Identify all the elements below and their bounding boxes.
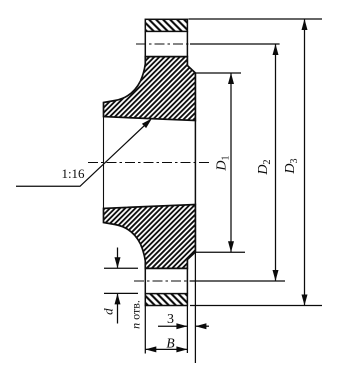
flange outer rim strip lower (hatched) bbox=[145, 294, 187, 306]
extension line below raised face (3 right) bbox=[194, 252, 196, 363]
svg-text:B: B bbox=[166, 335, 174, 350]
bore silhouette line at flange face bbox=[194, 121, 196, 205]
D2 arrow down bbox=[273, 270, 279, 281]
dimension 3 left arrow bbox=[158, 323, 187, 329]
D3 extension line lower bbox=[190, 305, 322, 307]
extension line below back face (B left) bbox=[144, 306, 146, 354]
D3 arrow down bbox=[302, 295, 308, 306]
d dimension arrow upper bbox=[115, 248, 121, 269]
bolt hole upper side walls bbox=[145, 31, 187, 56]
d extension line upper bbox=[104, 267, 138, 269]
extension line below front face (B right / 3 left) bbox=[186, 306, 188, 354]
bolt circle centerline lower bbox=[134, 280, 190, 282]
flange lower half main body (hatched) bbox=[104, 205, 196, 269]
D3 arrow up bbox=[302, 19, 308, 30]
D2 extension line upper bbox=[190, 43, 280, 45]
bolt hole lower side walls bbox=[145, 268, 187, 293]
D3 dimension line bbox=[304, 19, 306, 306]
D1 dimension line bbox=[230, 73, 232, 252]
leader 1:16 bbox=[16, 118, 152, 186]
D2 dimension line bbox=[275, 44, 277, 281]
bolt circle centerline upper bbox=[136, 43, 190, 45]
dimension 3 right arrow bbox=[195, 323, 209, 329]
B dimension line bbox=[145, 348, 187, 350]
d extension line lower bbox=[104, 292, 138, 294]
D1 extension line lower bbox=[196, 251, 245, 253]
flange outer rim strip upper (hatched) bbox=[145, 19, 187, 31]
D1 extension line upper bbox=[196, 72, 241, 74]
D2 extension line lower bbox=[190, 280, 285, 282]
B arrow right bbox=[176, 346, 187, 352]
bore silhouette line at pipe end bbox=[103, 117, 105, 209]
d dimension arrow lower bbox=[115, 293, 121, 323]
svg-text:1:16: 1:16 bbox=[61, 166, 85, 181]
D1 arrow up bbox=[228, 73, 234, 84]
axis centerline bbox=[88, 162, 210, 164]
svg-text:n отв.: n отв. bbox=[128, 300, 142, 329]
flange upper half main body (hatched) bbox=[104, 57, 196, 121]
D1 arrow down bbox=[228, 241, 234, 252]
D3 extension line upper bbox=[188, 18, 322, 20]
svg-text:3: 3 bbox=[167, 312, 174, 327]
D2 arrow up bbox=[273, 44, 279, 55]
svg-text:d: d bbox=[100, 308, 115, 315]
B arrow left bbox=[145, 346, 156, 352]
